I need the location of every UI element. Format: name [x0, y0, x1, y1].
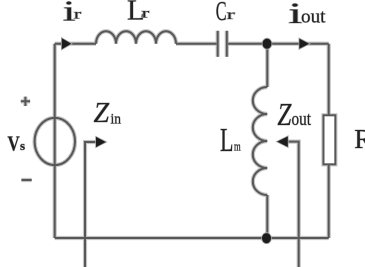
- svg-text:r: r: [142, 7, 150, 22]
- svg-text:s: s: [20, 138, 25, 153]
- svg-text:out: out: [292, 109, 312, 130]
- svg-text:Z: Z: [94, 98, 110, 129]
- svg-text:out: out: [301, 7, 326, 28]
- svg-text:in: in: [111, 112, 122, 128]
- svg-text:C: C: [216, 0, 227, 26]
- svg-text:m: m: [234, 139, 241, 154]
- svg-text:r: r: [74, 8, 82, 23]
- svg-text:L: L: [220, 122, 234, 159]
- svg-text:Z: Z: [277, 96, 292, 132]
- svg-text:R: R: [354, 124, 365, 154]
- svg-text:V: V: [8, 132, 20, 156]
- svg-text:r: r: [227, 8, 236, 23]
